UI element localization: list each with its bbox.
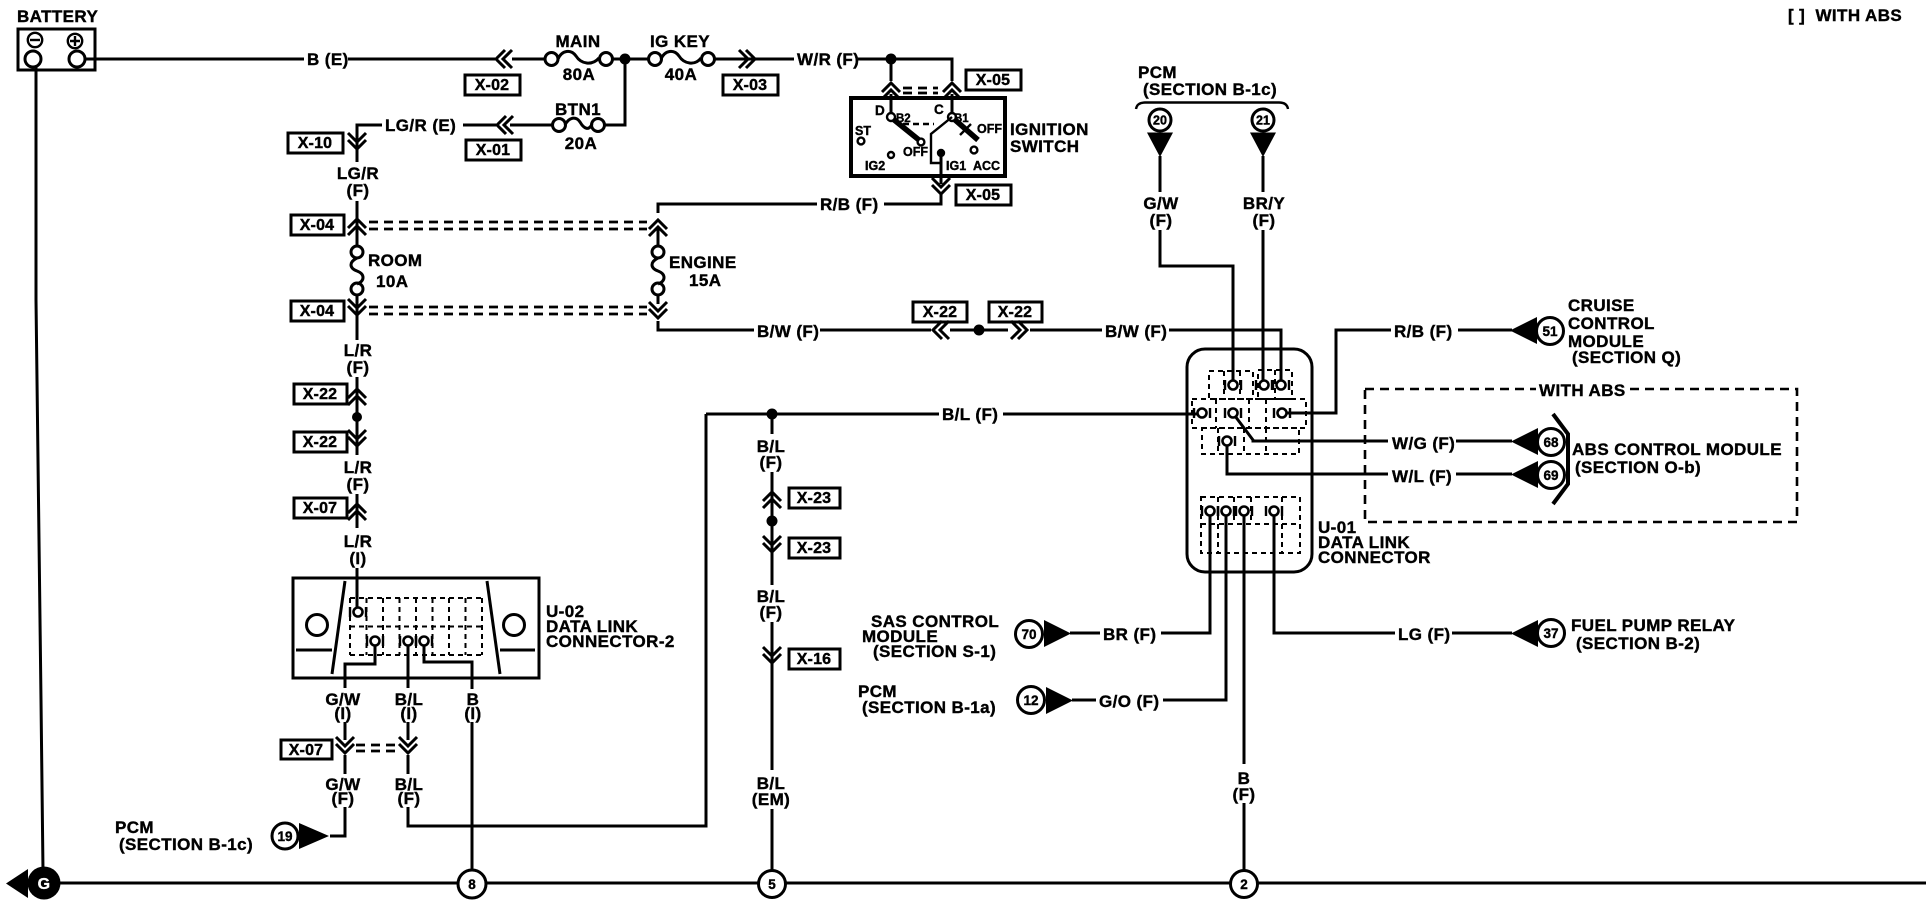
svg-text:X-05: X-05 [976, 72, 1011, 89]
connector X-07 symbol [348, 504, 366, 520]
U-01 bottom row pins [1202, 506, 1218, 516]
connector X-16 label box [789, 649, 840, 669]
svg-text:C: C [934, 102, 944, 117]
wire down to X-04 [356, 201, 359, 246]
svg-text:CONNECTOR-2: CONNECTOR-2 [546, 632, 675, 651]
connector X-05 label box top [966, 70, 1021, 90]
svg-text:X-05: X-05 [966, 187, 1001, 204]
label LG/R (F) [337, 164, 379, 200]
svg-text:WITH ABS: WITH ABS [1539, 381, 1626, 400]
svg-text:B/W (F): B/W (F) [757, 322, 819, 341]
wire B (F) from U-01 to ground joint 2 [1243, 516, 1246, 871]
connector X-01 symbol [497, 116, 513, 134]
wire to X-22 [356, 377, 359, 413]
label G/W (F) [1143, 194, 1179, 230]
connector X-03 label box [723, 75, 778, 95]
svg-text:(SECTION B-1c): (SECTION B-1c) [119, 835, 253, 854]
svg-text:IG1: IG1 [946, 159, 966, 173]
terminal 70 [1016, 621, 1043, 648]
svg-text:X-03: X-03 [733, 77, 768, 94]
wire LG/R elbow down to X-10 [357, 125, 382, 162]
svg-text:BR (F): BR (F) [1103, 625, 1156, 644]
wire to X-03 [714, 58, 794, 61]
wire into U-02 [356, 568, 359, 607]
svg-text:MAIN: MAIN [555, 32, 600, 51]
svg-text:(F): (F) [760, 453, 783, 472]
terminal 37 [1538, 620, 1565, 647]
ignition switch internals [855, 102, 1002, 173]
svg-text:X-23: X-23 [797, 540, 832, 557]
label B/L (F) [395, 775, 424, 808]
abs control module label [1572, 440, 1782, 477]
fuse BTN1 20A [553, 100, 605, 153]
svg-text:SWITCH: SWITCH [1010, 137, 1079, 156]
svg-text:OFF: OFF [977, 122, 1002, 136]
svg-text:(F): (F) [1253, 211, 1276, 230]
connector X-07 lower label box [281, 740, 332, 759]
svg-text:40A: 40A [665, 65, 697, 84]
svg-text:(I): (I) [400, 704, 417, 723]
battery negative wire down to ground [36, 67, 43, 871]
svg-text:X-22: X-22 [998, 304, 1033, 321]
wire B(E) from battery to X-02 [85, 58, 495, 61]
svg-text:(F): (F) [760, 603, 783, 622]
fuse BTN1 branch wire [605, 62, 625, 125]
wire R/B from U-01 pin to cruise [1287, 330, 1391, 413]
connector X-22 symbol left on B/W wire [933, 321, 949, 339]
connector X-04 lower symbol [348, 299, 366, 315]
PCM (SECTION B-1c) header [1136, 63, 1288, 109]
ground bus wire [60, 882, 1926, 885]
svg-text:(F): (F) [332, 789, 355, 808]
wire to ground joint 5 [771, 809, 774, 870]
wire LG to terminal 37 [1452, 632, 1512, 635]
terminal 69 [1538, 462, 1565, 489]
svg-text:51: 51 [1542, 324, 1558, 339]
svg-text:ST: ST [855, 124, 871, 138]
U-02 label [546, 602, 675, 651]
PCM (SECTION B-1c) label bottom left [115, 818, 253, 854]
label B/L (EM) [752, 774, 790, 809]
terminal 20 arrow [1147, 133, 1173, 158]
wire B (I) down to ground [471, 722, 474, 869]
svg-text:B/L (F): B/L (F) [942, 405, 998, 424]
terminal 19 arrow [299, 823, 329, 849]
U-01 middle row pins [1194, 408, 1210, 418]
connector X-23 lower symbol [763, 536, 781, 552]
svg-text:20: 20 [1153, 114, 1167, 128]
svg-text:W/R (F): W/R (F) [797, 50, 859, 69]
terminal 51 [1537, 318, 1564, 345]
svg-text:W/L (F): W/L (F) [1392, 467, 1452, 486]
wire to X-16 [771, 622, 774, 668]
terminal 20 [1149, 109, 1171, 131]
connector X-04 upper label box [291, 215, 344, 235]
junction dot on B/W wire [974, 325, 985, 336]
svg-text:G: G [38, 876, 51, 893]
connector X-22 label box right [989, 302, 1042, 322]
wire down to B/L (EM) [771, 668, 774, 770]
svg-text:B/W (F): B/W (F) [1105, 322, 1167, 341]
connector X-16 symbol [763, 647, 781, 663]
ground symbol G [6, 867, 61, 900]
svg-text:BTN1: BTN1 [555, 100, 601, 119]
svg-text:IG KEY: IG KEY [650, 32, 710, 51]
connector X-07 lower symbols [336, 737, 354, 753]
label B/L (F) chain lower [757, 587, 786, 622]
label L/R (F) upper [344, 341, 373, 377]
connector X-22 lower symbol [348, 430, 366, 446]
connector X-22 symbol right on B/W wire [1011, 321, 1027, 339]
label G/W (F) [325, 775, 361, 808]
connector X-03 symbol [739, 50, 755, 68]
wire W/G to terminal 68 [1456, 440, 1512, 443]
wire to X-07 [356, 494, 359, 528]
wire B/W continues [1030, 329, 1102, 332]
wire BR from U-01 to SAS [1161, 516, 1210, 633]
label B (F) [1233, 769, 1256, 804]
fuse IG KEY 40A [649, 32, 715, 84]
svg-text:X-22: X-22 [303, 386, 338, 403]
junction dot on left chain [352, 412, 362, 422]
abs bracket [1553, 414, 1568, 504]
label B/L (F) chain [757, 437, 786, 472]
junction dot W/R [886, 54, 897, 65]
label B/L (I) [395, 690, 424, 723]
svg-text:(SECTION B-1c): (SECTION B-1c) [1143, 80, 1277, 99]
connector X-10 symbol [348, 133, 366, 149]
ground joint 2 [1231, 871, 1258, 898]
svg-text:(I): (I) [349, 549, 366, 568]
terminal 37 arrow [1511, 620, 1538, 647]
connector X-10 label box [288, 133, 343, 153]
wire B/W (F) [658, 321, 754, 330]
wire BTN1 to X-01 [510, 124, 553, 127]
svg-text:X-01: X-01 [476, 142, 511, 159]
label BR/Y (F) [1243, 194, 1285, 230]
U-01 top row pins [1225, 380, 1241, 390]
svg-text:LG/R (E): LG/R (E) [385, 116, 456, 135]
ground joint 5 [759, 871, 786, 898]
wire G/W (F) elbow to PCM 19 [330, 807, 345, 836]
ground joint 8 [458, 870, 486, 898]
svg-text:69: 69 [1543, 468, 1558, 483]
wire R/B to engine fuse chain [658, 204, 817, 213]
connector X-04 upper symbol [348, 219, 366, 235]
svg-text:IG2: IG2 [865, 159, 885, 173]
connector X-05 symbols above ignition switch [882, 83, 900, 99]
connector X-02 symbol on wire [496, 50, 512, 68]
wire to X-23 lower [771, 521, 774, 585]
svg-text:5: 5 [768, 877, 776, 892]
U-02 data link connector-2 [293, 578, 539, 678]
wire G/O from U-01 to PCM 12 [1163, 516, 1226, 700]
connector X-05 label box bottom [956, 185, 1011, 205]
wire W/G from U-01 [1235, 416, 1388, 441]
svg-text:D: D [875, 103, 885, 118]
wire BR/Y into U-01 [1262, 230, 1265, 380]
svg-text:(EM): (EM) [752, 790, 790, 809]
label G/W (I) [325, 690, 361, 723]
wire G/W from 20 [1159, 156, 1162, 192]
svg-text:X-16: X-16 [797, 651, 832, 668]
svg-text:R/B (F): R/B (F) [820, 195, 879, 214]
wire to X-04 lower [356, 295, 359, 340]
connector X-23 upper label box [789, 488, 840, 508]
svg-text:ROOM: ROOM [368, 251, 422, 270]
svg-text:2: 2 [1240, 877, 1248, 892]
wire G/W (I) [344, 678, 347, 740]
svg-text:8: 8 [468, 877, 476, 892]
svg-text:(SECTION B-1a): (SECTION B-1a) [862, 698, 996, 717]
wire BR/Y from 21 [1262, 156, 1265, 192]
wire B/W into U-01 pin [1169, 330, 1281, 380]
wires below X-07 [345, 755, 408, 774]
svg-text:CONNECTOR: CONNECTOR [1318, 548, 1431, 567]
wire to X-22 connectors [820, 329, 931, 332]
label L/R (F) lower [344, 458, 373, 494]
connector X-04 lower label box [291, 301, 344, 321]
connector X-23 lower label box [789, 538, 840, 558]
svg-text:70: 70 [1021, 627, 1036, 642]
svg-text:W/G (F): W/G (F) [1392, 434, 1455, 453]
label B (I) [464, 690, 481, 723]
wire G/W elbow into U-01 [1160, 230, 1233, 380]
svg-text:R/B (F): R/B (F) [1394, 322, 1453, 341]
svg-text:(F): (F) [398, 789, 421, 808]
wire B (I) [471, 678, 474, 689]
svg-text:X-02: X-02 [475, 77, 510, 94]
PCM (SECTION B-1a) label [858, 682, 996, 717]
wire from IG1 down through X-05 [940, 157, 943, 184]
svg-text:(F): (F) [1233, 785, 1256, 804]
wire B/L chain down [771, 414, 774, 434]
connector X-07 lower dashed link [356, 745, 397, 751]
terminal 68 arrow [1511, 428, 1538, 455]
cruise control module label [1568, 296, 1681, 367]
svg-text:ACC: ACC [973, 159, 1000, 173]
terminal 21 [1252, 109, 1274, 131]
svg-text:68: 68 [1543, 435, 1559, 450]
svg-text:X-10: X-10 [298, 135, 333, 152]
svg-text:X-04: X-04 [300, 303, 335, 320]
terminal 12 [1018, 687, 1045, 714]
svg-text:X-04: X-04 [300, 217, 335, 234]
wire W/R to ignition switch [858, 59, 952, 81]
wire to fuse MAIN [512, 58, 545, 61]
wire B/L (F) elbow to B/L net [408, 414, 706, 826]
U-01 label [1318, 518, 1431, 567]
svg-text:FUEL PUMP RELAY: FUEL PUMP RELAY [1571, 616, 1736, 635]
terminal 69 arrow [1511, 461, 1538, 488]
svg-text:CONTROL: CONTROL [1568, 314, 1655, 333]
wire to LG/R (E) [463, 124, 496, 127]
svg-text:ENGINE: ENGINE [669, 253, 737, 272]
SAS control module label [862, 612, 999, 661]
svg-text:80A: 80A [563, 65, 595, 84]
wire B/L (I) [407, 678, 410, 740]
junction dot B/L chain [767, 516, 778, 527]
svg-text:X-22: X-22 [303, 434, 338, 451]
terminal 12 arrow [1046, 687, 1073, 714]
U-01 data link connector [1187, 349, 1312, 572]
svg-text:BATTERY: BATTERY [17, 7, 98, 26]
connector X-22 upper symbol [348, 389, 366, 405]
svg-text:(F): (F) [347, 358, 370, 377]
wire LG from U-01 to fuel pump relay [1274, 516, 1395, 633]
connector X-22 lower label box [294, 432, 347, 452]
terminal 21 arrow [1250, 133, 1276, 158]
wire R/B to terminal 51 [1458, 329, 1512, 332]
terminal 51 arrow [1510, 317, 1537, 344]
wire and junction dot [612, 58, 648, 61]
connector X-22 label box left [913, 302, 967, 322]
wire to X-22 lower [356, 417, 359, 455]
connector X-04 lower dashed lines to engine chain [369, 307, 647, 314]
svg-text:OFF: OFF [903, 145, 928, 159]
svg-text:(SECTION B-2): (SECTION B-2) [1576, 634, 1700, 653]
battery B-01 [17, 7, 98, 70]
svg-text:(SECTION O-b): (SECTION O-b) [1575, 458, 1701, 477]
svg-text:B (E): B (E) [307, 50, 349, 69]
connector X-07 label box [294, 498, 347, 518]
svg-text:37: 37 [1543, 626, 1558, 641]
wire BR to terminal 70 [1070, 632, 1100, 635]
fuel pump relay label [1571, 616, 1736, 653]
svg-text:(F): (F) [1150, 211, 1173, 230]
svg-text:ABS CONTROL MODULE: ABS CONTROL MODULE [1572, 440, 1782, 459]
svg-text:(I): (I) [464, 704, 481, 723]
wire W/L to terminal 69 [1456, 473, 1512, 476]
svg-text:[ ] WITH ABS: [ ] WITH ABS [1788, 6, 1902, 25]
svg-text:10A: 10A [376, 272, 408, 291]
connector X-01 label box [466, 140, 521, 160]
engine fuse chain / fuse ENGINE 15A [649, 220, 737, 318]
svg-text:(SECTION Q): (SECTION Q) [1572, 348, 1681, 367]
svg-text:19: 19 [277, 829, 292, 844]
connector X-23 upper symbol [763, 492, 781, 508]
connector X-22 upper label box [294, 384, 347, 404]
svg-text:G/O (F): G/O (F) [1099, 692, 1159, 711]
svg-text:21: 21 [1256, 114, 1270, 128]
svg-text:12: 12 [1023, 693, 1038, 708]
svg-text:15A: 15A [689, 271, 721, 290]
U-01 third row pin [1219, 436, 1235, 446]
wire B/L (F) horizontal net [706, 413, 1198, 416]
svg-text:X-07: X-07 [289, 742, 324, 759]
terminal 68 [1538, 429, 1565, 456]
terminal 19 [272, 823, 298, 849]
svg-text:(I): (I) [334, 704, 351, 723]
svg-text:CRUISE: CRUISE [1568, 296, 1635, 315]
wire to X-23 [771, 472, 774, 517]
svg-text:X-22: X-22 [923, 304, 958, 321]
svg-text:(SECTION S-1): (SECTION S-1) [873, 642, 996, 661]
connector X-04 upper dashed lines to engine chain [369, 222, 647, 229]
svg-text:X-07: X-07 [303, 500, 338, 517]
with abs dashed box [1365, 389, 1797, 522]
wire G/O to terminal 12 [1072, 699, 1096, 702]
terminal 70 arrow [1044, 620, 1071, 647]
ignition switch box [851, 98, 1005, 176]
svg-text:X-23: X-23 [797, 490, 832, 507]
wire W/L from U-01 [1227, 446, 1388, 474]
connector X-02 label box [465, 75, 520, 95]
svg-text:(F): (F) [347, 181, 370, 200]
fuse MAIN 80A [545, 32, 613, 84]
junction dot B/L net [767, 409, 778, 420]
svg-text:LG (F): LG (F) [1398, 625, 1450, 644]
svg-text:20A: 20A [565, 134, 597, 153]
label L/R (I) [344, 532, 373, 568]
svg-text:(F): (F) [347, 475, 370, 494]
fuse ROOM 10A [351, 246, 422, 295]
